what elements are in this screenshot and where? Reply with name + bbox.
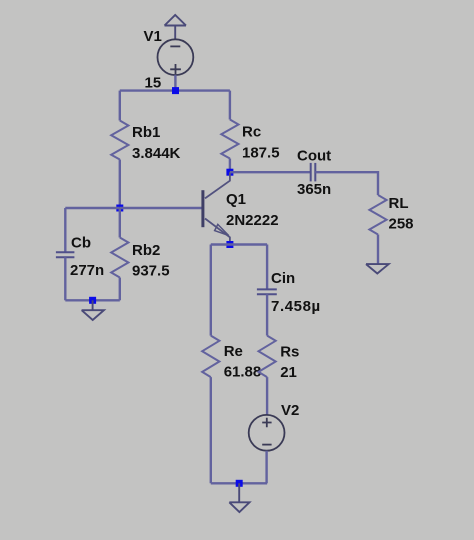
wire Cb bottom lead: [64, 257, 66, 300]
wire emitter rail: [211, 243, 267, 245]
junction at base node: [116, 205, 123, 212]
svg-text:365n: 365n: [297, 181, 331, 198]
capacitor Cout: [311, 163, 316, 182]
transistor Q1 emitter arrowhead: [215, 224, 229, 235]
svg-text:937.5: 937.5: [132, 263, 170, 280]
wire emitter rail down to Re: [210, 245, 212, 336]
svg-text:Cin: Cin: [271, 270, 295, 287]
svg-text:258: 258: [389, 216, 414, 233]
svg-text:2N2222: 2N2222: [226, 212, 279, 229]
svg-text:RL: RL: [389, 195, 409, 212]
resistor RL: [369, 195, 386, 235]
svg-text:V2: V2: [281, 402, 299, 419]
wire base node down to Rb2: [119, 208, 121, 238]
transistor Q1 base bar: [201, 190, 204, 227]
svg-text:21: 21: [280, 364, 297, 381]
capacitor Cb: [56, 252, 75, 257]
svg-text:Rc: Rc: [242, 124, 261, 141]
junction at bottom ground: [236, 480, 243, 487]
junction at emitter node: [226, 241, 233, 248]
ground below RL: [366, 264, 389, 273]
svg-text:Cout: Cout: [297, 148, 331, 165]
svg-text:Rb1: Rb1: [132, 124, 160, 141]
svg-text:Q1: Q1: [226, 191, 246, 208]
junction at collector node: [226, 169, 233, 176]
wire Rs to V2: [266, 377, 268, 415]
svg-text:Rs: Rs: [280, 344, 299, 361]
wire V2 to bottom rail: [265, 451, 267, 484]
svg-text:Re: Re: [224, 343, 243, 360]
svg-text:61.88: 61.88: [224, 364, 262, 381]
wire top rail: [120, 89, 230, 91]
power flag above V1 (rotated ground): [165, 15, 187, 39]
transistor Q1 emitter lead: [205, 219, 230, 245]
svg-text:277n: 277n: [70, 262, 104, 279]
wire V1 bottom to top rail: [174, 75, 176, 91]
wire Cb top lead: [64, 208, 66, 252]
wire Cin to Rs: [266, 294, 268, 335]
svg-text:V1: V1: [144, 28, 162, 45]
ground below Cb/Rb2: [82, 300, 104, 320]
wire Cout to RL: [315, 172, 378, 195]
wire Rc to collector node: [229, 159, 231, 173]
wire emitter rail down to Cin: [266, 245, 268, 290]
resistor Rc: [221, 120, 238, 159]
wire base node to transistor base: [120, 207, 203, 209]
svg-text:Rb2: Rb2: [132, 242, 160, 259]
wire Rb1 to base node: [119, 160, 121, 209]
resistor Re: [202, 336, 219, 378]
wire top rail to Rc: [229, 91, 231, 120]
junction at bottom-left ground: [89, 297, 96, 304]
wire top rail to Rb1: [119, 91, 121, 121]
wire Rb2 to bottom-left rail: [119, 278, 121, 301]
wire RL to ground: [377, 235, 379, 265]
resistor Rb2: [111, 238, 128, 278]
svg-text:3.844K: 3.844K: [132, 145, 181, 162]
wire bottom-left rail: [65, 299, 120, 301]
svg-text:7.458µ: 7.458µ: [271, 298, 321, 315]
wire base node left to Cb: [65, 207, 120, 209]
resistor Rb1: [111, 121, 128, 160]
wire collector node to Cout: [230, 171, 311, 173]
voltage source V1: [158, 39, 194, 75]
svg-text:15: 15: [145, 74, 162, 91]
voltage source V2: [249, 415, 285, 451]
junction at V1 / top rail: [172, 87, 179, 94]
svg-text:Cb: Cb: [71, 235, 91, 252]
wire bottom rail: [211, 482, 267, 484]
ground below bottom rail: [229, 483, 249, 512]
capacitor Cin: [257, 289, 277, 294]
resistor Rs: [259, 336, 276, 378]
svg-text:187.5: 187.5: [242, 145, 280, 162]
wire Re to bottom rail: [210, 377, 212, 483]
transistor Q1 collector lead: [205, 172, 230, 198]
